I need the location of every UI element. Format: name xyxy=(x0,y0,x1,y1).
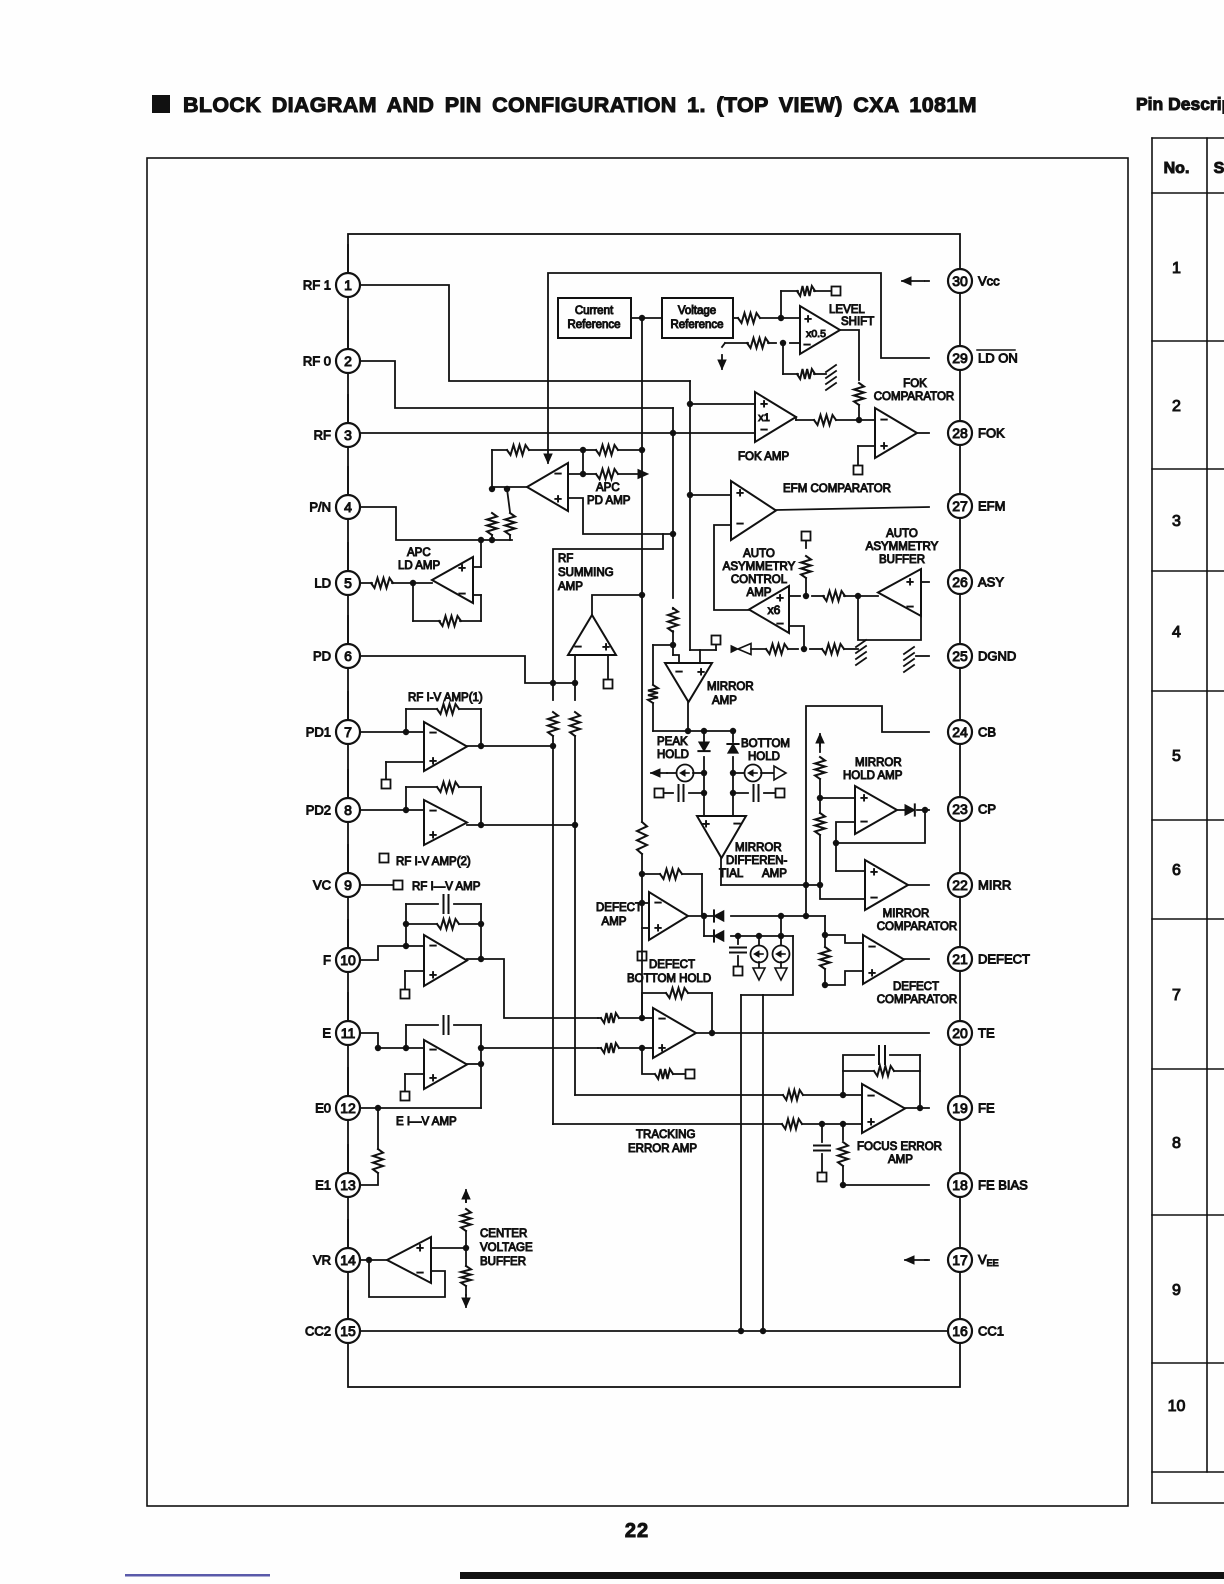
svg-text:−: − xyxy=(654,895,662,910)
svg-text:HOLD AMP: HOLD AMP xyxy=(843,770,903,782)
svg-text:FOCUS ERROR: FOCUS ERROR xyxy=(857,1141,942,1153)
svg-text:+: + xyxy=(658,1040,666,1055)
svg-text:DEFECT: DEFECT xyxy=(649,959,695,971)
svg-text:DEFECT: DEFECT xyxy=(596,902,642,914)
svg-text:7: 7 xyxy=(1172,987,1181,1004)
svg-text:Current: Current xyxy=(575,305,614,317)
svg-text:LD AMP: LD AMP xyxy=(398,560,441,572)
svg-text:+: + xyxy=(760,396,768,411)
svg-text:DGND: DGND xyxy=(978,649,1016,664)
svg-text:+: + xyxy=(416,1240,424,1255)
svg-text:AUTO: AUTO xyxy=(886,528,918,540)
svg-text:FOK: FOK xyxy=(903,378,927,390)
svg-text:FOK AMP: FOK AMP xyxy=(738,451,789,463)
svg-text:24: 24 xyxy=(952,724,968,740)
svg-text:−: − xyxy=(574,639,582,654)
svg-text:Reference: Reference xyxy=(670,319,723,331)
svg-text:+: + xyxy=(458,560,466,575)
svg-text:No.: No. xyxy=(1164,160,1190,177)
svg-text:TIAL: TIAL xyxy=(719,868,744,880)
svg-text:Voltage: Voltage xyxy=(678,305,716,317)
svg-text:VR: VR xyxy=(313,1253,331,1268)
svg-text:AMP: AMP xyxy=(762,868,787,880)
svg-text:APC: APC xyxy=(407,547,431,559)
svg-text:+: + xyxy=(429,1070,437,1085)
svg-text:+: + xyxy=(860,790,868,805)
svg-text:−: − xyxy=(906,599,914,614)
svg-text:BLOCK DIAGRAM AND PIN CONFIGUR: BLOCK DIAGRAM AND PIN CONFIGURATION 1. (… xyxy=(183,93,977,117)
svg-text:E0: E0 xyxy=(315,1101,331,1116)
svg-text:AUTO: AUTO xyxy=(743,548,775,560)
svg-text:COMPARATOR: COMPARATOR xyxy=(877,994,958,1006)
svg-text:−: − xyxy=(429,1042,437,1057)
svg-text:+: + xyxy=(870,864,878,879)
svg-text:−: − xyxy=(429,725,437,740)
svg-text:−: − xyxy=(458,586,466,601)
svg-text:ERROR AMP: ERROR AMP xyxy=(628,1143,697,1155)
svg-text:25: 25 xyxy=(952,648,968,664)
svg-text:−: − xyxy=(429,803,437,818)
svg-text:LD: LD xyxy=(314,576,331,591)
svg-text:22: 22 xyxy=(952,877,968,893)
svg-text:27: 27 xyxy=(952,498,968,514)
svg-text:x6: x6 xyxy=(768,603,781,617)
svg-text:+: + xyxy=(804,311,812,326)
svg-text:4: 4 xyxy=(1172,624,1181,641)
svg-text:BOTTOM HOLD: BOTTOM HOLD xyxy=(627,973,711,985)
svg-text:15: 15 xyxy=(340,1323,356,1339)
svg-text:COMPARATOR: COMPARATOR xyxy=(877,921,958,933)
svg-text:18: 18 xyxy=(952,1177,968,1193)
svg-text:+: + xyxy=(906,574,914,589)
svg-text:RF: RF xyxy=(314,428,331,443)
svg-text:8: 8 xyxy=(1172,1135,1181,1152)
svg-text:DEFECT: DEFECT xyxy=(893,981,939,993)
svg-text:1: 1 xyxy=(1172,260,1181,277)
svg-text:RF I-V AMP(2): RF I-V AMP(2) xyxy=(396,856,471,868)
svg-text:DEFECT: DEFECT xyxy=(978,952,1030,967)
svg-text:SUMMING: SUMMING xyxy=(558,567,614,579)
svg-text:−: − xyxy=(880,412,888,427)
svg-text:Vcc: Vcc xyxy=(978,274,1000,289)
svg-text:−: − xyxy=(867,1088,875,1103)
svg-text:BOTTOM: BOTTOM xyxy=(741,738,790,750)
svg-text:FOK: FOK xyxy=(978,426,1005,441)
svg-text:CONTROL: CONTROL xyxy=(731,574,788,586)
svg-text:10: 10 xyxy=(340,952,356,968)
svg-text:RF 1: RF 1 xyxy=(303,278,331,293)
svg-text:−: − xyxy=(776,616,784,631)
svg-text:TRACKING: TRACKING xyxy=(636,1129,695,1141)
svg-text:CC1: CC1 xyxy=(978,1324,1004,1339)
svg-text:−: − xyxy=(675,664,683,679)
svg-text:+: + xyxy=(429,827,437,842)
svg-text:RF: RF xyxy=(558,553,573,565)
svg-text:−: − xyxy=(554,466,562,481)
svg-text:14: 14 xyxy=(340,1252,356,1268)
svg-text:AMP: AMP xyxy=(888,1154,913,1166)
svg-text:26: 26 xyxy=(952,574,968,590)
svg-text:13: 13 xyxy=(340,1177,356,1193)
svg-text:E I—V AMP: E I—V AMP xyxy=(396,1116,457,1128)
svg-text:8: 8 xyxy=(344,802,352,818)
svg-text:−: − xyxy=(803,337,811,352)
svg-text:+: + xyxy=(867,1114,875,1129)
svg-text:+: + xyxy=(868,965,876,980)
svg-text:MIRROR: MIRROR xyxy=(855,757,902,769)
svg-text:CC2: CC2 xyxy=(305,1324,331,1339)
svg-text:BUFFER: BUFFER xyxy=(480,1256,526,1268)
svg-text:ASY: ASY xyxy=(978,575,1004,590)
svg-text:22: 22 xyxy=(625,1520,649,1542)
svg-text:30: 30 xyxy=(952,273,968,289)
svg-text:FE: FE xyxy=(978,1101,995,1116)
svg-text:+: + xyxy=(602,639,610,654)
svg-text:4: 4 xyxy=(344,499,352,515)
svg-text:3: 3 xyxy=(1172,513,1181,530)
svg-text:1: 1 xyxy=(344,277,352,293)
svg-text:TE: TE xyxy=(978,1026,995,1041)
svg-text:S: S xyxy=(1214,160,1224,177)
svg-text:19: 19 xyxy=(952,1100,968,1116)
svg-text:12: 12 xyxy=(340,1100,356,1116)
svg-text:RF I-V AMP(1): RF I-V AMP(1) xyxy=(408,692,483,704)
svg-text:E: E xyxy=(322,1026,331,1041)
svg-text:9: 9 xyxy=(1172,1282,1181,1299)
svg-text:2: 2 xyxy=(344,353,352,369)
svg-text:MIRROR: MIRROR xyxy=(707,681,754,693)
svg-text:P/N: P/N xyxy=(309,500,331,515)
svg-text:−: − xyxy=(733,816,741,831)
svg-text:+: + xyxy=(702,816,710,831)
svg-text:CP: CP xyxy=(978,802,996,817)
svg-text:APC: APC xyxy=(596,482,620,494)
svg-text:11: 11 xyxy=(341,1025,356,1041)
svg-text:PEAK: PEAK xyxy=(657,736,688,748)
svg-text:−: − xyxy=(429,938,437,953)
svg-text:MIRR: MIRR xyxy=(978,878,1011,893)
svg-text:VOLTAGE: VOLTAGE xyxy=(480,1242,533,1254)
svg-text:28: 28 xyxy=(952,425,968,441)
svg-text:RF 0: RF 0 xyxy=(303,354,331,369)
svg-text:DIFFEREN-: DIFFEREN- xyxy=(726,855,788,867)
svg-text:+: + xyxy=(429,967,437,982)
svg-text:−: − xyxy=(868,939,876,954)
svg-text:MIRROR: MIRROR xyxy=(735,842,782,854)
svg-text:+: + xyxy=(697,664,705,679)
svg-text:PD: PD xyxy=(313,649,331,664)
svg-text:CB: CB xyxy=(978,725,996,740)
svg-text:CENTER: CENTER xyxy=(480,1228,527,1240)
svg-text:+: + xyxy=(880,438,888,453)
svg-text:E1: E1 xyxy=(315,1178,331,1193)
svg-text:EFM: EFM xyxy=(978,499,1005,514)
svg-text:5: 5 xyxy=(344,575,352,591)
svg-text:+: + xyxy=(429,753,437,768)
svg-text:−: − xyxy=(736,516,744,531)
svg-text:−: − xyxy=(870,890,878,905)
svg-text:−: − xyxy=(658,1011,666,1026)
svg-text:+: + xyxy=(554,491,562,506)
svg-text:AMP: AMP xyxy=(602,916,627,928)
svg-text:PD AMP: PD AMP xyxy=(587,495,631,507)
svg-text:3: 3 xyxy=(344,427,352,443)
svg-text:20: 20 xyxy=(952,1025,968,1041)
svg-text:5: 5 xyxy=(1172,748,1181,765)
svg-text:−: − xyxy=(860,814,868,829)
svg-text:PD1: PD1 xyxy=(306,725,331,740)
svg-text:MIRROR: MIRROR xyxy=(883,908,930,920)
svg-text:BUFFER: BUFFER xyxy=(879,554,925,566)
svg-text:10: 10 xyxy=(1168,1398,1186,1415)
svg-text:9: 9 xyxy=(344,877,352,893)
svg-text:ASYMMETRY: ASYMMETRY xyxy=(723,561,796,573)
svg-text:PD2: PD2 xyxy=(306,803,331,818)
svg-text:+: + xyxy=(654,920,662,935)
svg-text:ASYMMETRY: ASYMMETRY xyxy=(866,541,939,553)
svg-text:LEVEL: LEVEL xyxy=(829,304,865,316)
svg-text:23: 23 xyxy=(952,801,968,817)
svg-text:Pin Description: Pin Description xyxy=(1136,94,1224,114)
svg-text:7: 7 xyxy=(344,724,352,740)
svg-text:SHIFT: SHIFT xyxy=(841,316,874,328)
svg-text:AMP: AMP xyxy=(558,581,583,593)
svg-text:6: 6 xyxy=(1172,862,1181,879)
svg-text:LD ON: LD ON xyxy=(978,351,1018,366)
svg-text:HOLD: HOLD xyxy=(748,751,780,763)
svg-text:2: 2 xyxy=(1172,398,1181,415)
svg-text:+: + xyxy=(736,485,744,500)
svg-text:FE BIAS: FE BIAS xyxy=(978,1178,1028,1193)
svg-text:COMPARATOR: COMPARATOR xyxy=(874,391,955,403)
svg-text:Reference: Reference xyxy=(567,319,620,331)
svg-text:VC: VC xyxy=(313,878,331,893)
svg-text:16: 16 xyxy=(952,1323,968,1339)
svg-text:29: 29 xyxy=(952,350,968,366)
svg-text:EFM COMPARATOR: EFM COMPARATOR xyxy=(783,483,891,495)
svg-text:AMP: AMP xyxy=(712,695,737,707)
svg-text:21: 21 xyxy=(952,951,968,967)
svg-text:−: − xyxy=(760,422,768,437)
svg-text:F: F xyxy=(323,953,331,968)
svg-text:−: − xyxy=(416,1265,424,1280)
svg-text:6: 6 xyxy=(344,648,352,664)
svg-text:RF I—V AMP: RF I—V AMP xyxy=(412,881,481,893)
svg-text:HOLD: HOLD xyxy=(657,749,689,761)
svg-text:17: 17 xyxy=(952,1252,968,1268)
